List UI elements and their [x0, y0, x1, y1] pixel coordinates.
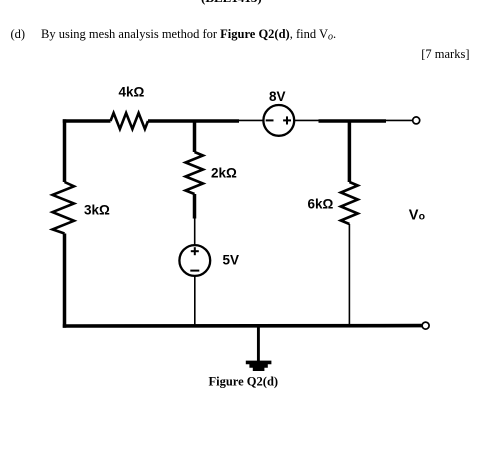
voltage source 8V [263, 89, 294, 136]
terminal bottom (open circle) [422, 322, 429, 329]
resistor R 6kOhm [308, 182, 358, 224]
svg-text:V: V [409, 207, 419, 223]
ground [246, 326, 272, 372]
wire thin lead into 8V source [239, 119, 263, 121]
wire middle rail middle [193, 194, 197, 219]
svg-text:3kΩ: 3kΩ [84, 202, 110, 217]
wire top-middle horizontal [148, 119, 239, 123]
wire top-left horizontal [63, 119, 111, 123]
resistor R 2kOhm [186, 152, 238, 194]
question label (d) [11, 27, 26, 42]
svg-text:8V: 8V [269, 89, 286, 104]
svg-text:5V: 5V [223, 253, 240, 268]
svg-text:6kΩ: 6kΩ [308, 196, 334, 211]
wire thin lead to top terminal [386, 119, 412, 121]
wire thin lead out of 8V source [294, 119, 318, 121]
terminal top (open circle) [413, 117, 420, 124]
wire top-right horizontal [319, 119, 387, 123]
wire left rail upper [63, 119, 67, 182]
wire right rail upper [348, 121, 352, 182]
svg-text:Figure Q2(d): Figure Q2(d) [209, 374, 279, 388]
voltage source 5V [179, 245, 239, 276]
wire right rail lower thin [348, 224, 350, 326]
marks label [421, 47, 469, 62]
svg-text:o: o [419, 210, 425, 222]
svg-text:2kΩ: 2kΩ [211, 166, 237, 181]
clipped course code header [201, 0, 262, 6]
wire thin lead into 5V source [194, 219, 196, 246]
resistor R 4kOhm [111, 84, 149, 129]
figure caption [209, 374, 279, 388]
wire middle rail upper [193, 121, 197, 152]
wire left rail lower [63, 234, 67, 328]
resistor R 3kOhm [53, 182, 111, 234]
wire bottom horizontal [63, 324, 422, 328]
wire thin lead below 5V source [194, 276, 196, 327]
svg-text:4kΩ: 4kΩ [119, 84, 145, 99]
question text [41, 27, 336, 43]
node label Vo [409, 207, 425, 223]
